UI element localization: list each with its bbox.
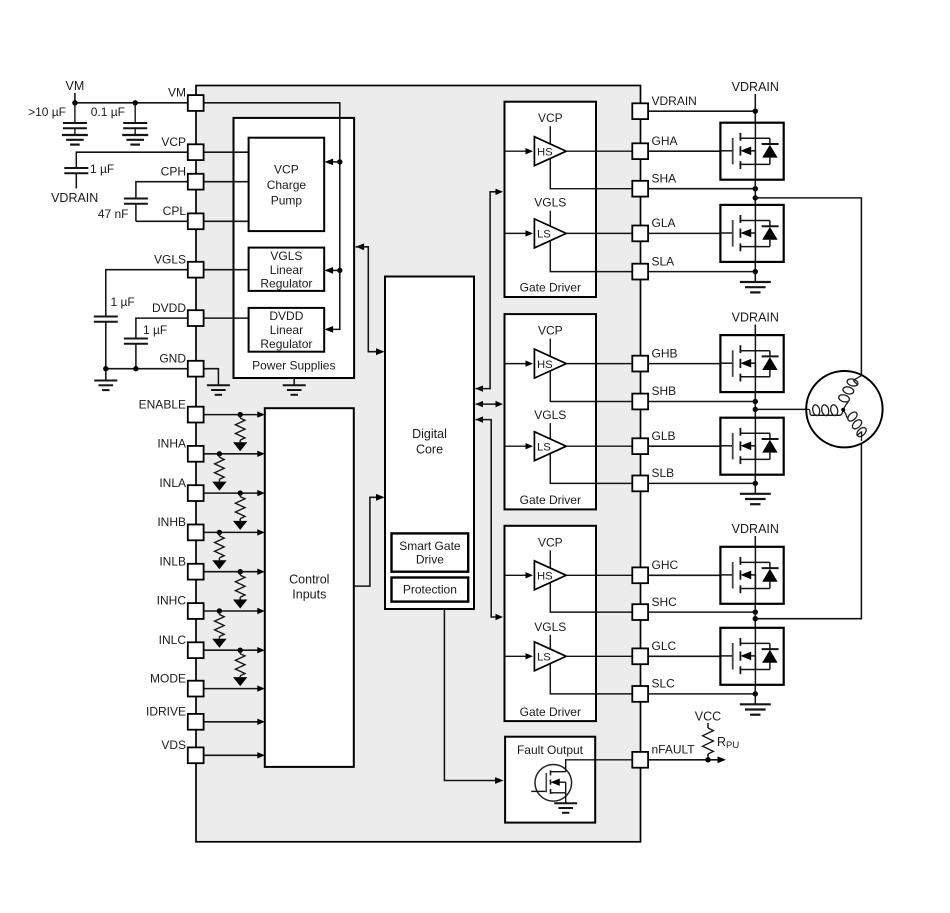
- svg-text:ENABLE: ENABLE: [139, 397, 186, 411]
- wire nFAULT output: [648, 756, 726, 763]
- wire VM to pin: [75, 102, 188, 104]
- capacitor C4 47nF flying cap: [98, 199, 148, 222]
- wire INHB input: [203, 529, 264, 535]
- svg-text:INHC: INHC: [157, 594, 187, 608]
- svg-text:VCP: VCP: [538, 535, 563, 549]
- svg-text:VGLS: VGLS: [270, 249, 302, 263]
- pin SLC: [632, 677, 675, 702]
- ground fault output: [554, 793, 577, 813]
- svg-text:INLC: INLC: [159, 633, 187, 647]
- wire LSB input: [505, 443, 534, 449]
- transistor QCL low-side: [720, 628, 783, 685]
- svg-text:INHB: INHB: [157, 515, 186, 529]
- block Control Inputs: [265, 408, 354, 767]
- wire SB low sense: [550, 454, 632, 484]
- svg-text:VDRAIN: VDRAIN: [732, 311, 779, 325]
- pin INHC: [157, 594, 204, 619]
- svg-text:1 µF: 1 µF: [111, 295, 135, 309]
- buffer HSB: [534, 349, 566, 378]
- transistor QAL low-side: [720, 205, 783, 262]
- svg-text:INLA: INLA: [159, 476, 186, 490]
- svg-text:GLC: GLC: [652, 639, 677, 653]
- wire GB high output: [566, 363, 632, 365]
- wire VDS input: [203, 752, 264, 758]
- pin GHB: [632, 346, 677, 371]
- pin VCP: [161, 135, 203, 160]
- svg-text:Power Supplies: Power Supplies: [252, 359, 335, 373]
- svg-text:Charge: Charge: [267, 178, 307, 192]
- node SHB junction: [753, 399, 758, 404]
- pin nFAULT: [632, 743, 695, 768]
- wire SA low sense: [550, 241, 632, 272]
- svg-text:VDRAIN: VDRAIN: [732, 522, 779, 536]
- net VCP label gate driver B: [538, 324, 563, 357]
- net VGLS label gate driver C: [534, 620, 566, 649]
- node SHC junction: [753, 609, 758, 614]
- label Power Supplies: [252, 359, 335, 373]
- pin GHA: [632, 134, 677, 159]
- wire CPL: [136, 220, 188, 222]
- block Smart Gate Drive: [392, 533, 469, 571]
- pin GHC: [632, 558, 678, 583]
- wire phase C to motor: [755, 443, 861, 619]
- wire digital core to fault output: [444, 609, 503, 784]
- resistor pulldown on INHB: [212, 530, 226, 570]
- ground phase B: [740, 483, 771, 504]
- ground phase A: [740, 272, 771, 293]
- pin DVDD: [152, 301, 204, 326]
- net VDRAIN label phase C: [732, 522, 779, 547]
- net VDRAIN label phase A: [732, 80, 779, 123]
- svg-text:LS: LS: [537, 229, 551, 241]
- block VGLS Linear Regulator: [249, 248, 325, 291]
- wire phase B to motor: [755, 408, 806, 410]
- transistor QBH high-side: [720, 335, 783, 392]
- svg-text:Linear: Linear: [270, 263, 303, 277]
- wire CPH: [136, 182, 188, 199]
- pin CPH: [161, 164, 204, 189]
- svg-text:VCP: VCP: [274, 162, 299, 176]
- svg-text:Gate Driver: Gate Driver: [520, 281, 581, 295]
- svg-text:HS: HS: [537, 146, 553, 158]
- svg-text:VDRAIN: VDRAIN: [652, 94, 697, 108]
- buffer LSB: [534, 432, 566, 461]
- arrow into DVDD regulator: [325, 326, 334, 333]
- wire digital core to gate driver B: [476, 401, 504, 407]
- svg-text:VGLS: VGLS: [534, 408, 566, 422]
- resistor pulldown on INHC: [212, 608, 226, 647]
- wire VCP internal: [203, 151, 249, 153]
- wire rail between fets: [754, 604, 756, 628]
- wire LSC input: [505, 653, 534, 659]
- wire GLC to fet: [648, 655, 721, 657]
- svg-text:Inputs: Inputs: [292, 588, 326, 602]
- node SLA junction: [753, 269, 758, 274]
- motor M1: [806, 371, 882, 447]
- buffer LSC: [534, 642, 566, 671]
- net VDRAIN label (left): [51, 191, 98, 205]
- block Gate Driver B: [505, 314, 597, 509]
- node VM tap VGLS regulator: [325, 267, 343, 274]
- block Fault Output: [505, 737, 595, 823]
- wire phase A to motor: [755, 198, 861, 376]
- pin VDS: [161, 738, 203, 763]
- svg-text:Linear: Linear: [270, 323, 303, 337]
- svg-text:SHB: SHB: [652, 384, 677, 398]
- wire DVDD to external cap: [136, 318, 188, 338]
- wire GLA to fet: [648, 232, 721, 234]
- capacitor C2 0.1uF: [91, 103, 147, 135]
- block Gate Driver C: [505, 526, 597, 721]
- wire GLB to fet: [648, 445, 721, 447]
- node GND-C5 junction: [103, 366, 108, 371]
- capacitor C1 >10uF: [28, 103, 87, 135]
- net VM label: [66, 79, 85, 103]
- resistor pulldown on INLB: [233, 569, 247, 609]
- block Digital Core: [385, 277, 474, 610]
- winding phase A (upper coil): [834, 371, 863, 411]
- wire SHC: [648, 611, 755, 613]
- ground below GND wire: [94, 369, 117, 390]
- svg-text:1 µF: 1 µF: [90, 162, 114, 176]
- wire INLB input: [203, 569, 264, 575]
- wire LSA input: [505, 230, 534, 236]
- svg-text:SLC: SLC: [652, 677, 676, 691]
- winding phase B (left coil): [806, 404, 843, 416]
- wire CPL internal: [203, 220, 249, 222]
- svg-text:VM: VM: [168, 86, 186, 100]
- wire VDRAIN pin to rail: [648, 110, 755, 112]
- node nFAULT-RPU junction: [705, 757, 710, 762]
- capacitor C5 1uF (VGLS): [94, 295, 135, 369]
- wire SHA: [648, 188, 755, 190]
- resistor pulldown on INLC: [233, 648, 247, 687]
- block Protection: [392, 578, 469, 602]
- svg-text:nFAULT: nFAULT: [652, 743, 696, 757]
- transistor QCH high-side: [720, 547, 783, 604]
- svg-text:GND: GND: [159, 351, 186, 365]
- svg-text:VGLS: VGLS: [534, 196, 566, 210]
- pin INHB: [157, 515, 203, 540]
- svg-text:VCC: VCC: [695, 710, 721, 724]
- wire digital core to gate driver A: [476, 189, 504, 392]
- pin INLC: [159, 633, 204, 658]
- svg-text:Gate Driver: Gate Driver: [520, 493, 581, 507]
- wire SLA: [648, 262, 755, 272]
- wire GHA to fet: [648, 150, 721, 152]
- svg-text:VGLS: VGLS: [534, 620, 566, 634]
- transistor Q7 open-drain fault: [531, 765, 571, 802]
- wire DVDD internal: [203, 317, 249, 319]
- svg-text:GHC: GHC: [652, 558, 679, 572]
- wire SHB: [648, 401, 755, 403]
- capacitor C3 1uF (VCP-VDRAIN): [64, 162, 114, 189]
- pin GND: [159, 351, 203, 376]
- ground below C2: [122, 135, 148, 145]
- wire GA low output: [566, 232, 632, 234]
- svg-text:Regulator: Regulator: [260, 277, 312, 291]
- ground phase C: [740, 694, 771, 715]
- svg-text:>10 µF: >10 µF: [28, 105, 66, 119]
- svg-text:VDS: VDS: [161, 738, 186, 752]
- node SHA junction: [753, 186, 758, 191]
- pin VDRAIN: [632, 94, 697, 119]
- wire nFAULT drain: [566, 760, 633, 772]
- svg-text:VGLS: VGLS: [154, 252, 186, 266]
- pin SHA: [632, 171, 676, 196]
- wire MODE input: [203, 685, 264, 691]
- wire IDRIVE input: [203, 719, 264, 725]
- wire GND internal: [203, 369, 218, 386]
- pin INLB: [159, 554, 203, 579]
- svg-text:VDRAIN: VDRAIN: [51, 191, 98, 205]
- ground power supplies: [283, 378, 306, 395]
- wire INHA input: [203, 451, 264, 457]
- pin IDRIVE: [146, 705, 204, 730]
- svg-text:1 µF: 1 µF: [143, 323, 167, 337]
- pin INLA: [159, 476, 203, 501]
- node motor neutral: [841, 408, 845, 412]
- wire GHB to fet: [648, 363, 721, 365]
- wire GC high output: [566, 574, 632, 576]
- svg-text:MODE: MODE: [150, 671, 186, 685]
- svg-text:DVDD: DVDD: [152, 301, 186, 315]
- ground internal GND: [207, 385, 230, 395]
- net VCP label gate driver A: [538, 111, 563, 144]
- svg-text:Core: Core: [416, 443, 443, 457]
- pin SHB: [632, 384, 676, 409]
- block VCP Charge Pump: [249, 138, 325, 231]
- wire CPH internal: [203, 181, 249, 183]
- node phase C tap: [753, 616, 758, 621]
- svg-text:VCP: VCP: [161, 135, 186, 149]
- svg-text:Digital: Digital: [412, 427, 447, 441]
- svg-text:CPH: CPH: [161, 164, 186, 178]
- wire power supplies to digital core: [356, 243, 385, 355]
- buffer LSA: [534, 219, 566, 248]
- svg-text:GHA: GHA: [652, 134, 678, 148]
- resistor pulldown on ENABLE: [233, 412, 247, 451]
- block DVDD Linear Regulator: [249, 308, 325, 352]
- svg-text:Control: Control: [289, 573, 329, 587]
- svg-text:GHB: GHB: [652, 346, 678, 360]
- svg-text:HS: HS: [537, 359, 553, 371]
- svg-text:VCP: VCP: [538, 324, 563, 338]
- wire VGLS internal: [203, 269, 249, 271]
- IC body (gate driver device outline): [196, 86, 641, 842]
- pin GLB: [632, 429, 675, 454]
- wire ENABLE input: [203, 411, 264, 417]
- svg-text:0.1 µF: 0.1 µF: [91, 105, 125, 119]
- pin INHA: [157, 437, 203, 462]
- wire control inputs to digital core: [354, 494, 385, 586]
- pin VM: [168, 86, 204, 111]
- wire GND external: [106, 368, 188, 370]
- wire GHC to fet: [648, 574, 721, 576]
- net VGLS label gate driver B: [534, 408, 566, 439]
- wire GB low output: [566, 445, 632, 447]
- node SLC junction: [753, 691, 758, 696]
- wire SB high sense: [550, 371, 632, 402]
- pin GLA: [632, 216, 675, 241]
- wire SLB: [648, 475, 755, 484]
- node phase A tap: [753, 195, 758, 200]
- pin SHC: [632, 595, 677, 620]
- wire INLA input: [203, 490, 264, 496]
- wire SA high sense: [550, 159, 632, 189]
- svg-text:Regulator: Regulator: [260, 337, 312, 351]
- pin SLA: [632, 254, 674, 279]
- net VDRAIN label phase B: [732, 311, 779, 336]
- wire VCP to external cap: [76, 152, 188, 168]
- buffer HSC: [534, 561, 566, 590]
- node VM junction 1: [72, 100, 77, 105]
- svg-text:SLB: SLB: [652, 466, 675, 480]
- pin CPL: [163, 204, 204, 229]
- wire SC high sense: [550, 583, 632, 613]
- svg-text:Pump: Pump: [271, 193, 303, 207]
- svg-text:VDRAIN: VDRAIN: [732, 80, 779, 94]
- Power Supplies block: [234, 118, 355, 378]
- wire GA high output: [566, 150, 632, 152]
- svg-text:SHC: SHC: [652, 595, 678, 609]
- resistor RPU pull-up: [703, 728, 740, 760]
- buffer HSA: [534, 137, 566, 166]
- wire rail between fets: [754, 180, 756, 205]
- wire HSA input: [505, 148, 534, 154]
- node SLB junction: [753, 481, 758, 486]
- svg-text:SLA: SLA: [652, 254, 675, 268]
- svg-text:Drive: Drive: [416, 553, 444, 567]
- block Gate Driver A: [505, 102, 597, 297]
- svg-text:VM: VM: [66, 79, 85, 93]
- svg-text:VCP: VCP: [538, 111, 563, 125]
- net VGLS label gate driver A: [534, 196, 566, 227]
- node phase B tap: [753, 407, 758, 412]
- wire VGLS to external cap: [106, 270, 188, 317]
- svg-text:IDRIVE: IDRIVE: [146, 705, 186, 719]
- wire GC low output: [566, 655, 632, 657]
- svg-text:LS: LS: [537, 441, 551, 453]
- pin MODE: [150, 671, 204, 696]
- pin ENABLE: [139, 397, 204, 422]
- node VDRAIN junction: [753, 109, 758, 114]
- ground below C1: [62, 135, 88, 145]
- node GND-C6 junction: [133, 366, 138, 371]
- svg-text:LS: LS: [537, 652, 551, 664]
- wire VM internal rail: [203, 103, 339, 330]
- svg-text:Protection: Protection: [403, 583, 457, 597]
- svg-text:47 nF: 47 nF: [98, 207, 129, 221]
- winding phase C (lower coil): [842, 404, 871, 441]
- svg-text:INLB: INLB: [159, 554, 186, 568]
- node VM junction 2: [133, 100, 138, 105]
- resistor pulldown on INLA: [233, 490, 247, 530]
- wire HSB input: [505, 360, 534, 366]
- transistor QBL low-side: [720, 418, 783, 475]
- net VCP label gate driver C: [538, 535, 563, 568]
- pin GLC: [632, 639, 676, 664]
- wire rail between fets: [754, 392, 756, 418]
- svg-text:HS: HS: [537, 571, 553, 583]
- resistor pulldown on INHA: [212, 451, 226, 491]
- svg-text:Fault Output: Fault Output: [517, 743, 584, 757]
- transistor QAH high-side: [720, 123, 783, 180]
- wire INHC input: [203, 608, 264, 614]
- svg-text:GLA: GLA: [652, 216, 676, 230]
- node VM tap charge pump: [325, 159, 343, 166]
- svg-text:GLB: GLB: [652, 429, 676, 443]
- wire INLC input: [203, 647, 264, 653]
- svg-text:Smart Gate: Smart Gate: [399, 539, 461, 553]
- svg-text:CPL: CPL: [163, 204, 187, 218]
- svg-text:INHA: INHA: [157, 437, 186, 451]
- wire SLC: [648, 685, 755, 694]
- pin SLB: [632, 466, 674, 491]
- wire digital core to gate driver C: [476, 416, 504, 620]
- net VCC label: [695, 710, 721, 729]
- capacitor C6 1uF (DVDD): [124, 323, 167, 369]
- wire SC low sense: [550, 664, 632, 694]
- svg-text:SHA: SHA: [652, 171, 677, 185]
- svg-text:Gate Driver: Gate Driver: [520, 705, 581, 719]
- wire HSC input: [505, 572, 534, 578]
- svg-text:DVDD: DVDD: [269, 309, 303, 323]
- pin VGLS: [154, 252, 204, 277]
